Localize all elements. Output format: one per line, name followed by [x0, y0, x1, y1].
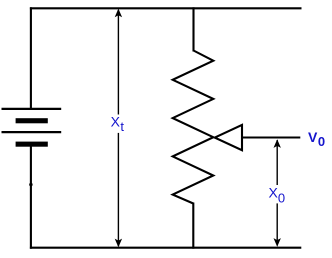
- battery B1 plate short thick 2: [16, 142, 48, 147]
- dimension arrow X0 upper segment with arrowhead at wiper line: [276, 140, 278, 185]
- wire left vertical upper (battery top lead): [30, 7, 32, 109]
- svg-text:0: 0: [278, 191, 285, 206]
- svg-text:t: t: [120, 119, 124, 134]
- svg-text:V: V: [308, 129, 318, 145]
- battery B1 plate long top: [2, 108, 62, 110]
- junction dot on left wire: [29, 183, 32, 186]
- potentiometer R1 zigzag body: [173, 51, 214, 204]
- wire left vertical lower (battery bottom lead): [30, 146, 32, 249]
- battery B1 plate long bottom: [2, 131, 62, 133]
- wire potentiometer top lead: [192, 7, 194, 51]
- wire wiper output lead: [242, 136, 300, 138]
- wire bottom rail: [30, 247, 301, 249]
- dimension arrow X0 lower segment with arrowhead at bottom rail: [276, 203, 278, 245]
- battery B1 plate short thick 1: [16, 118, 48, 123]
- svg-text:0: 0: [318, 134, 325, 149]
- wiper arrow (pot tap triangle): [215, 125, 242, 150]
- dimension arrow Xt upper segment with arrowhead at top rail: [117, 10, 119, 115]
- dimension arrow Xt lower segment with arrowhead at bottom rail: [117, 133, 119, 246]
- wire potentiometer bottom lead: [192, 203, 194, 249]
- wire top rail: [30, 7, 302, 9]
- svg-text:X: X: [111, 113, 121, 129]
